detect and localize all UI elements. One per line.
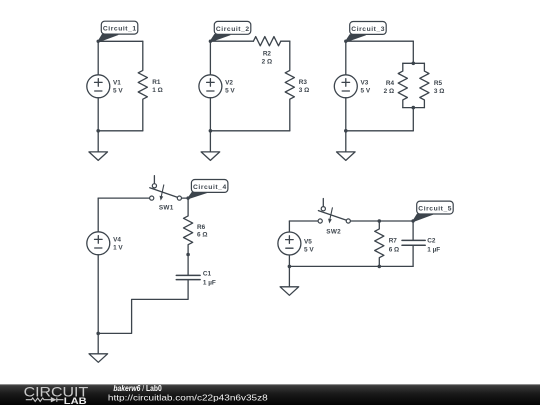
- wire left rail upper C5: [288, 221, 290, 232]
- ground C5: [280, 266, 299, 295]
- label V3 5 V: [361, 80, 371, 95]
- svg-text:V3: V3: [361, 80, 369, 87]
- label V2 5 V: [225, 80, 235, 95]
- svg-text:V5: V5: [304, 238, 312, 245]
- watermark bar: [0, 384, 540, 405]
- svg-text:http://circuitlab.com/c22p43n6: http://circuitlab.com/c22p43n6v35z8: [108, 393, 268, 402]
- wire SW1 to R6 node: [182, 197, 189, 199]
- svg-text:R5: R5: [434, 80, 443, 87]
- voltage source V4: [87, 232, 110, 255]
- label R4 2 ohm: [384, 80, 395, 95]
- wire left rail upper C1: [97, 41, 99, 75]
- wire top-left C4: [98, 197, 149, 199]
- wire left rail upper C2: [209, 41, 211, 75]
- svg-text:6 Ω: 6 Ω: [197, 231, 207, 238]
- label R5 3 ohm: [434, 80, 444, 95]
- resistor R3: [285, 41, 294, 131]
- wire left rail lower C2: [209, 98, 211, 131]
- wire right drop to parallel pair: [412, 41, 414, 63]
- svg-text:3 Ω: 3 Ω: [299, 87, 309, 94]
- svg-text:R3: R3: [299, 79, 308, 86]
- wire top Circuit_1: [98, 40, 143, 42]
- junction C5 bottom-left: [288, 265, 292, 269]
- svg-text:1 Ω: 1 Ω: [152, 87, 162, 94]
- node flag Circuit_4: [186, 180, 227, 200]
- svg-text:Circuit_5: Circuit_5: [418, 206, 451, 213]
- svg-text:2 Ω: 2 Ω: [262, 58, 272, 65]
- voltage source V5: [278, 232, 301, 255]
- wire top-left C5: [289, 220, 318, 222]
- node flag Circuit_2: [209, 21, 251, 43]
- svg-text:LAB: LAB: [64, 396, 87, 405]
- wire left rail upper C4: [97, 198, 99, 232]
- svg-text:5 V: 5 V: [225, 88, 235, 95]
- wire top-right C2: [281, 40, 290, 42]
- svg-text:V1: V1: [113, 80, 121, 87]
- wire C2 top lead: [412, 221, 414, 240]
- svg-text:V4: V4: [113, 237, 121, 244]
- svg-text:C2: C2: [427, 237, 436, 244]
- junction C1 bottom: [96, 129, 100, 133]
- svg-text:V2: V2: [225, 80, 233, 87]
- svg-text:R7: R7: [389, 237, 398, 244]
- wire left rail lower C3: [345, 98, 347, 131]
- junction C2 bottom: [209, 129, 213, 133]
- svg-text:5 V: 5 V: [304, 247, 314, 254]
- label R7 6 ohm: [389, 237, 399, 253]
- junction C4 bottom: [96, 332, 100, 336]
- node flag Circuit_5: [411, 201, 453, 223]
- svg-text:1 µF: 1 µF: [203, 280, 216, 287]
- svg-text:3 Ω: 3 Ω: [434, 88, 444, 95]
- wire C2 bottom lead: [412, 245, 414, 266]
- svg-text:R4: R4: [386, 80, 395, 87]
- svg-text:Circuit_4: Circuit_4: [193, 184, 226, 191]
- svg-text:R2: R2: [263, 50, 272, 57]
- wire bottom C5: [289, 265, 413, 267]
- resistor R4: [398, 63, 407, 107]
- wire left rail lower C4: [97, 255, 99, 334]
- wire top-left C2: [210, 40, 253, 42]
- svg-text:Circuit_1: Circuit_1: [103, 26, 136, 33]
- junction R7 top: [378, 219, 382, 223]
- label C1 1 uF: [203, 271, 216, 287]
- wire parallel top bar: [403, 62, 425, 64]
- junction C3 parallel bottom: [412, 106, 416, 110]
- label R1 1 ohm: [152, 79, 162, 94]
- wire top C3: [346, 40, 414, 42]
- junction R7 bottom: [378, 265, 382, 269]
- label V1 5 V: [113, 80, 123, 95]
- node flag Circuit_3: [344, 22, 386, 43]
- ground C2: [201, 131, 220, 161]
- resistor R7: [375, 221, 384, 266]
- svg-text:Circuit_3: Circuit_3: [351, 26, 384, 33]
- junction R6-C1: [186, 253, 190, 257]
- ground C4: [89, 333, 108, 362]
- svg-text:5 V: 5 V: [113, 88, 123, 95]
- wire bottom C3: [346, 130, 414, 132]
- svg-text:SW1: SW1: [159, 204, 174, 211]
- ground C3: [337, 131, 356, 161]
- svg-text:R1: R1: [152, 79, 161, 86]
- svg-text:1 V: 1 V: [113, 245, 123, 252]
- junction C3 bottom-left: [344, 129, 348, 133]
- wire C1 return path: [98, 280, 188, 334]
- logo resistor-diode glyph: [26, 397, 64, 402]
- capacitor C2: [402, 240, 425, 245]
- voltage source V2: [199, 75, 222, 98]
- label V4 1 V: [113, 237, 123, 252]
- resistor R2: [253, 37, 280, 46]
- ground C1: [89, 131, 108, 161]
- svg-text:SW2: SW2: [326, 229, 341, 236]
- svg-text:Circuit_2: Circuit_2: [216, 26, 249, 33]
- wire bottom C1: [98, 130, 143, 132]
- label R3 3 ohm: [299, 79, 309, 94]
- voltage source V3: [334, 75, 357, 98]
- wire R6 to C1: [187, 255, 189, 276]
- node flag Circuit_1: [97, 21, 138, 43]
- capacitor C1: [176, 275, 200, 279]
- wire bottom C2: [210, 130, 289, 132]
- wire left rail lower C1: [97, 98, 99, 131]
- svg-text:C1: C1: [203, 271, 212, 278]
- resistor R5: [420, 63, 429, 107]
- junction C3 parallel top: [412, 62, 416, 66]
- wire right rail lower C3: [412, 108, 414, 131]
- switch SW1: [150, 176, 182, 201]
- wire left rail upper C3: [345, 41, 347, 75]
- svg-text:1 µF: 1 µF: [427, 247, 440, 254]
- voltage source V1: [87, 75, 110, 98]
- label R6 6 ohm: [197, 224, 207, 238]
- label R2 2 ohm: [262, 50, 272, 65]
- svg-text:2 Ω: 2 Ω: [384, 88, 394, 95]
- switch SW2: [318, 199, 350, 224]
- svg-text:5 V: 5 V: [361, 88, 371, 95]
- wire parallel bottom bar: [403, 107, 425, 109]
- wire SW2 to R7 and C2: [350, 220, 413, 222]
- svg-text:bakerw6 / Lab0: bakerw6 / Lab0: [113, 384, 162, 393]
- label C2 1 uF: [427, 237, 440, 253]
- svg-text:R6: R6: [197, 224, 206, 231]
- resistor R6: [184, 198, 193, 254]
- wire left rail lower C5: [288, 255, 290, 266]
- resistor R1: [138, 41, 147, 131]
- label V5 5 V: [304, 238, 314, 253]
- svg-text:6 Ω: 6 Ω: [389, 247, 399, 254]
